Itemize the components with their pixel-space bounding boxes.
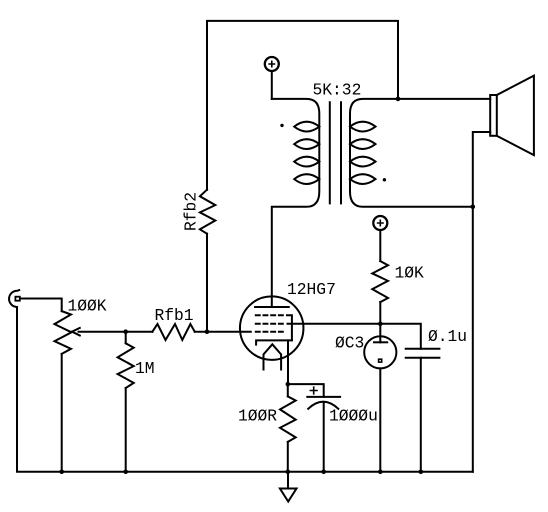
svg-text:ØC3: ØC3: [335, 334, 364, 353]
wire g1 into tube: [195, 331, 251, 333]
resistor 100R: [280, 384, 296, 472]
secondary loop 4: [350, 174, 376, 184]
tube cathode: [256, 340, 292, 344]
svg-text:12HG7: 12HG7: [287, 280, 336, 299]
secondary loop 1: [350, 122, 376, 132]
primary loop 1: [294, 122, 319, 132]
node g1 / Rfb junction: [205, 329, 210, 334]
resistor Rfb2: [200, 190, 215, 234]
resistor 1M: [118, 332, 134, 472]
potentiometer 100K: [55, 311, 72, 472]
node 1M bottom rail: [123, 470, 128, 475]
node 1000u bottom rail: [321, 470, 326, 475]
speaker LS1: [490, 76, 534, 156]
svg-text:Rfb2: Rfb2: [182, 192, 201, 231]
phase dot secondary: [383, 178, 386, 181]
node secondary bottom / speaker return junction: [471, 205, 476, 210]
wire jack to volume pot: [21, 299, 62, 312]
tube V1 12HG7 envelope: [240, 296, 304, 360]
capacitor 1000u: [307, 387, 340, 472]
transformer core: [330, 102, 341, 203]
node 0C3 bottom rail: [378, 470, 383, 475]
node cathode / 100R / 1000u junction: [286, 382, 291, 387]
secondary loop 2: [350, 139, 376, 149]
transformer T1 secondary winding: [350, 99, 490, 207]
wire top rail from Rfb2 branch to right drop: [207, 21, 398, 190]
tube grid g2: [255, 323, 284, 325]
wire to 1000u: [288, 384, 324, 397]
wire B+ lead to primary top: [271, 71, 273, 99]
svg-text:1M: 1M: [135, 359, 155, 378]
pot wiper arrow: [72, 328, 152, 336]
node 100K bottom rail: [59, 470, 64, 475]
svg-text:1ØK: 1ØK: [395, 263, 425, 282]
secondary loop 3: [350, 157, 376, 167]
tube grid g3: [255, 314, 284, 316]
node 0.1u bottom rail: [419, 470, 424, 475]
capacitor 0.1u: [406, 349, 440, 472]
power terminal B+ screen: [373, 216, 387, 230]
tube heater: [264, 344, 282, 369]
resistor 10K: [372, 261, 388, 302]
ground: [280, 472, 297, 502]
primary loop 4: [294, 174, 319, 184]
node 100R bottom rail: [286, 470, 291, 475]
primary loop 3: [294, 157, 319, 167]
power terminal B+ primary: [265, 57, 279, 71]
tube grid g1: [255, 331, 284, 333]
primary loop 2: [294, 139, 319, 149]
tube plate: [255, 306, 289, 308]
wire 10K to screen node: [379, 302, 381, 324]
tube g3 tie to cathode: [287, 315, 292, 340]
phase dot primary: [280, 124, 283, 127]
svg-text:1ØØR: 1ØØR: [238, 407, 277, 426]
svg-text:1ØØØu: 1ØØØu: [329, 406, 378, 425]
resistor Rfb1: [152, 324, 194, 340]
node top rail / secondary top junction: [396, 97, 401, 102]
wire ground bus left and bottom rail: [17, 307, 473, 472]
wire speaker return: [473, 132, 490, 472]
transformer T1 primary winding: [272, 99, 320, 307]
wire cathode down: [287, 340, 289, 384]
regulator tube 0C3: [364, 324, 396, 472]
input jack J1: [9, 290, 19, 307]
wire Rfb2 lower lead down to grid node: [206, 234, 208, 332]
svg-text:Ø.1u: Ø.1u: [428, 327, 467, 346]
node wiper / 1M junction: [123, 329, 128, 334]
svg-text:Rfb1: Rfb1: [155, 306, 194, 325]
node screen / 10K / 0C3 junction: [378, 322, 383, 327]
jack tip contact: [15, 297, 19, 301]
wire B+ to 10K: [379, 230, 381, 261]
svg-text:1ØØK: 1ØØK: [68, 297, 107, 316]
wire screen grid to 10K node and 0.1u: [288, 324, 421, 349]
svg-text:5K:32: 5K:32: [313, 81, 362, 100]
